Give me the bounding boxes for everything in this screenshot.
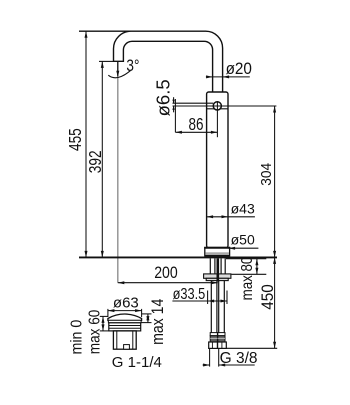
supply hoses upper (above mounting nut) (209, 258, 211, 274)
dim 200 (118, 282, 218, 284)
wire: body seam line (207, 108, 228, 110)
svg-text:min 0: min 0 (69, 320, 86, 355)
countertop line (79, 256, 277, 258)
svg-text:200: 200 (154, 264, 178, 282)
dim phi50 (229, 247, 259, 249)
drain body (113, 331, 136, 349)
spout tube outline with top extension line (79, 31, 223, 92)
svg-text:392: 392 (86, 150, 105, 173)
supply hoses lower (210, 281, 212, 333)
svg-text:max 14: max 14 (149, 298, 167, 345)
node set-screw circle ø6.5 (213, 102, 221, 110)
drain rings block (109, 323, 141, 331)
dim 304 (274, 106, 276, 257)
drain detail: dim phi63 (108, 310, 142, 312)
drain cap rim (108, 320, 141, 323)
svg-text:3°: 3° (126, 57, 139, 76)
dim G 3/8 (209, 349, 211, 367)
mounting nut below counter (204, 274, 231, 278)
svg-text:max 80: max 80 (239, 257, 256, 301)
svg-text:G 3/8: G 3/8 (220, 350, 258, 367)
node outlet tip extension line (99, 60, 114, 62)
base flange ø50 (205, 248, 230, 256)
dim phi20 (206, 76, 250, 78)
hose collars (210, 333, 217, 336)
hose hex nuts G3/8 (209, 342, 218, 348)
threaded stud (217, 258, 220, 281)
dim phi33.5 (207, 291, 209, 305)
dim 392 (101, 61, 103, 257)
body column ø43 (207, 92, 228, 248)
hose ferrules (210, 336, 217, 342)
dim 86 (175, 131, 217, 133)
svg-text:max 60: max 60 (87, 310, 104, 355)
svg-text:455: 455 (67, 128, 86, 151)
svg-text:G 1-1/4: G 1-1/4 (112, 354, 162, 371)
svg-text:ø43: ø43 (231, 201, 255, 217)
drain bottom notch (124, 345, 130, 350)
dim max80 (226, 258, 266, 260)
svg-text:86: 86 (189, 115, 204, 134)
drain cap dome (108, 314, 142, 320)
dim phi6.5 leader lines (173, 105, 277, 107)
svg-text:450: 450 (258, 284, 277, 310)
dim phi43 (207, 216, 255, 218)
svg-text:ø33.5: ø33.5 (173, 286, 206, 304)
dim max14 (142, 313, 152, 315)
dim 3 deg (117, 62, 119, 76)
dim 450 (274, 257, 276, 348)
svg-text:ø6.5: ø6.5 (153, 79, 174, 116)
svg-text:ø50: ø50 (231, 231, 255, 247)
dim min0 max60 (100, 315, 108, 317)
svg-text:ø20: ø20 (226, 59, 252, 78)
svg-text:ø63: ø63 (113, 294, 139, 311)
dim 455 (85, 31, 87, 257)
wire: grey projection line from spout outlet down to 200 dim (117, 62, 119, 283)
svg-text:304: 304 (258, 163, 274, 186)
